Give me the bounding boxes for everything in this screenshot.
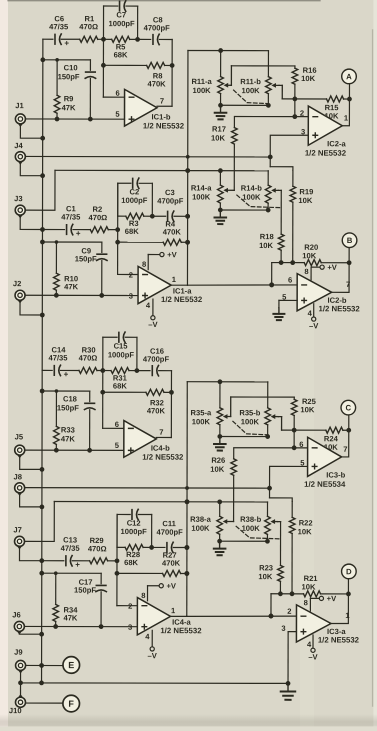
op-amp IC3-b (299, 437, 347, 489)
svg-text:1/2 NE5532: 1/2 NE5532 (143, 121, 185, 130)
resistor R10 47K (54, 240, 79, 295)
svg-text:7: 7 (159, 428, 163, 437)
ground at pin5 (273, 308, 284, 320)
wiper arrow R11-b (271, 83, 282, 99)
svg-text:10K: 10K (301, 74, 315, 83)
svg-text:150pF: 150pF (75, 254, 97, 263)
svg-text:R22: R22 (299, 518, 313, 527)
svg-text:100K: 100K (192, 193, 211, 202)
svg-text:1/2 NE5532: 1/2 NE5532 (161, 295, 203, 304)
wire main input line C6/R1 section (43, 38, 53, 40)
jack J7 (13, 525, 24, 549)
svg-text:+: + (64, 39, 69, 48)
potentiometer R14-b 100K (241, 171, 271, 210)
capacitor C17 150pF box (39, 571, 106, 627)
svg-text:47/35: 47/35 (61, 213, 81, 222)
capacitor C7 1000pF feedback box (103, 1, 137, 40)
svg-text:6: 6 (288, 276, 292, 285)
svg-text:1000pF: 1000pF (108, 350, 135, 359)
resistor R34 47K (53, 571, 78, 626)
dashed gang line (234, 90, 269, 104)
wire pot feed rail section3-4 (184, 382, 189, 617)
wire wiper line to R25 (231, 396, 294, 398)
potentiometer R35-b 100K (239, 382, 270, 437)
capacitor C2 1000pF box (118, 178, 153, 216)
svg-text:68K: 68K (124, 558, 138, 567)
svg-text:100K: 100K (191, 524, 210, 533)
svg-text:10K: 10K (258, 572, 272, 581)
wire pin3 to R22 (267, 466, 307, 501)
wire ground line from J4 (26, 155, 270, 158)
svg-text:10K: 10K (300, 405, 314, 414)
svg-text:47/35: 47/35 (49, 22, 69, 31)
potentiometer R38-b 100K (240, 502, 270, 541)
capacitor C8 4700pF (144, 15, 171, 44)
svg-text:+: + (76, 229, 81, 238)
wire J7 stub to input rail (19, 547, 41, 561)
capacitor C12 1000pF box (117, 509, 152, 547)
wire J1 stub to input rail (20, 125, 45, 141)
svg-text:R19: R19 (299, 187, 313, 196)
wire R1 to node (98, 38, 104, 40)
wire C16 to feedback rail (159, 370, 172, 372)
-V power stub 2 (309, 304, 319, 331)
jack J8 (13, 472, 24, 496)
svg-text:3: 3 (301, 127, 305, 136)
resistor R8 470K feedback (101, 62, 175, 88)
capacitor C14 47/35 electrolytic (48, 345, 68, 379)
wire pot feed line (line A) (188, 48, 269, 53)
svg-text:R14-b: R14-b (241, 184, 262, 193)
svg-text:6: 6 (115, 420, 119, 429)
resistor R1 470 ohm (79, 14, 98, 42)
wire pot bottoms 2 (217, 539, 270, 544)
svg-text:–V: –V (308, 653, 318, 662)
ground at pot bottom (215, 106, 227, 119)
svg-text:8: 8 (304, 267, 308, 276)
svg-text:470Ω: 470Ω (79, 22, 98, 31)
ground at pot bottom 2 (214, 211, 226, 224)
wire pot bottoms (218, 103, 271, 108)
output terminal A (342, 69, 357, 84)
svg-text:1000pF: 1000pF (121, 196, 148, 205)
page right edge seam (373, 0, 377, 731)
wire pin3 to R19 (268, 135, 308, 170)
ground at pot bottom (214, 437, 226, 450)
wiper arrow R38-b (270, 519, 280, 524)
capacitor C11 4700pF (152, 519, 190, 553)
+V power stub 2 (311, 263, 338, 280)
svg-text:47/35: 47/35 (61, 544, 81, 553)
ground at pot bottom 2 (214, 542, 226, 555)
junction node rail / input line (115, 227, 120, 232)
wire main input rail (all jacks to coupling caps) (42, 39, 43, 683)
jack J5 input (15, 432, 25, 458)
capacitor C13 47/35 electrolytic (42, 535, 81, 569)
-V power stub (148, 299, 158, 329)
svg-text:100K: 100K (242, 193, 261, 202)
resistor R17 10K summing (211, 116, 308, 190)
wire J5 to op-amp pin5 line (25, 448, 124, 453)
svg-text:100K: 100K (241, 417, 260, 426)
svg-text:7: 7 (160, 96, 164, 105)
svg-text:R26: R26 (211, 456, 225, 465)
wire ground line from J8 (25, 487, 269, 490)
wire J4 stub to input rail (20, 162, 45, 178)
capacitor C18 150pF box (40, 389, 95, 451)
svg-text:470K: 470K (147, 406, 166, 415)
svg-text:R23: R23 (259, 563, 273, 572)
dashed gang line (233, 421, 268, 435)
resistor R20 10K feedback (272, 243, 352, 266)
svg-text:R18: R18 (260, 232, 274, 241)
capacitor C9 150pF box (40, 240, 107, 296)
op-amp IC2-b (282, 267, 360, 318)
dashed gang line 2 (236, 526, 281, 539)
jack J1 input (15, 101, 25, 127)
svg-text:+: + (64, 370, 69, 379)
svg-text:470Ω: 470Ω (79, 353, 98, 362)
ground main (bottom bus) (281, 683, 296, 699)
svg-text:R11-a: R11-a (191, 77, 212, 86)
op-amp IC1-a (129, 260, 203, 310)
wire summing node drop to pin6 (269, 594, 274, 619)
resistor R16 10K (292, 66, 317, 99)
svg-text:47K: 47K (63, 613, 77, 622)
jack J10 (9, 694, 26, 715)
svg-text:C10: C10 (64, 63, 78, 72)
svg-text:E: E (68, 660, 74, 670)
jack J4 (14, 141, 25, 165)
wire pot feed line 2 (55, 168, 268, 173)
svg-text:–V: –V (309, 321, 319, 330)
svg-text:2: 2 (287, 607, 291, 616)
wiper arrow R35-b (271, 414, 282, 430)
junction C-box right / R3 line (150, 214, 155, 219)
svg-text:6: 6 (299, 440, 303, 449)
op-amp IC4-a (128, 591, 202, 641)
svg-text:IC2-a: IC2-a (327, 139, 346, 148)
svg-text:150pF: 150pF (58, 72, 80, 81)
wire J9 to terminal E (26, 663, 62, 668)
wire op-amp output to terminal (342, 84, 349, 126)
bottom page shadow (0, 714, 377, 731)
wire C14 to R30 (60, 369, 78, 371)
node junction at inverting rail / main line (100, 368, 105, 373)
svg-text:47K: 47K (64, 282, 78, 291)
output terminal D (342, 564, 357, 579)
svg-text:10K: 10K (259, 241, 273, 250)
resistor R5 68K (103, 36, 137, 59)
svg-text:8: 8 (304, 598, 308, 607)
resistor R22 10K (289, 501, 312, 593)
wire J2 stub to input rail (20, 301, 45, 318)
+V power stub 2 (310, 594, 337, 611)
wire R25 to pin2 node (292, 428, 297, 451)
resistor R25 10K (291, 397, 316, 430)
svg-text:J8: J8 (14, 472, 22, 481)
svg-text:1/2 NE5532: 1/2 NE5532 (318, 635, 360, 644)
junction input rail / coupling cap line (39, 558, 44, 563)
svg-text:C15: C15 (114, 342, 129, 351)
svg-text:D: D (346, 567, 352, 576)
svg-text:A: A (346, 72, 352, 81)
wiper arrow R35-a (223, 397, 231, 419)
-V power stub 4 (308, 635, 318, 662)
svg-text:C7: C7 (116, 10, 126, 19)
svg-text:470K: 470K (163, 227, 182, 236)
svg-text:1/2 NE5532: 1/2 NE5532 (160, 626, 202, 635)
svg-text:4700pF: 4700pF (143, 355, 170, 364)
junction input rail / coupling cap line (40, 227, 45, 232)
svg-text:7: 7 (343, 445, 347, 454)
svg-text:100K: 100K (192, 86, 211, 95)
svg-text:R11-b: R11-b (240, 77, 261, 86)
wiper arrow R38-a (223, 519, 234, 524)
wire pot bottoms 2 (218, 208, 271, 213)
resistor R27 470K (115, 551, 190, 577)
+V power stub (148, 581, 177, 600)
potentiometer R14-a 100K (191, 171, 223, 210)
potentiometer R38-a 100K (190, 502, 222, 541)
wire inverting-node rail (103, 39, 124, 97)
svg-text:8: 8 (142, 260, 146, 269)
svg-text:J3: J3 (14, 194, 22, 203)
wire node to C16 (137, 370, 150, 372)
capacitor C3 4700pF (152, 188, 190, 222)
resistor R26 10K summing (210, 448, 307, 522)
svg-text:J1: J1 (15, 101, 24, 110)
svg-text:470K: 470K (148, 79, 167, 88)
svg-text:R38-b: R38-b (240, 515, 261, 524)
op-amp IC1-b 1/2 NE5532 (115, 89, 184, 131)
wire pot feed rail section1-2 (185, 50, 190, 285)
resistor R21 10K feedback (271, 574, 351, 597)
wire J3 stub to input rail (20, 216, 42, 230)
svg-text:100K: 100K (241, 86, 260, 95)
jack J9 (14, 648, 25, 674)
svg-text:4700pF: 4700pF (144, 23, 171, 32)
svg-text:R35-b: R35-b (239, 408, 260, 417)
wire op-amp output to terminal (342, 415, 349, 457)
svg-text:47K: 47K (62, 103, 76, 112)
svg-text:R38-a: R38-a (190, 515, 211, 524)
svg-text:100K: 100K (242, 524, 261, 533)
output terminal C (341, 400, 356, 415)
node junction at inverting rail / main line (101, 37, 106, 42)
wire J2 to pin3 line (26, 293, 138, 298)
wire J6 stub to input rail (19, 632, 44, 637)
svg-text:470Ω: 470Ω (88, 544, 107, 553)
wire J5 stub to input rail (20, 456, 45, 472)
wire pot feed line (line A) (187, 379, 268, 384)
svg-text:J5: J5 (15, 432, 24, 441)
wire C6 to R1 (61, 38, 79, 40)
svg-text:2: 2 (300, 109, 304, 118)
svg-text:1000pF: 1000pF (121, 527, 148, 536)
dashed gang line 2 (237, 195, 282, 208)
svg-text:R14-a: R14-a (191, 184, 212, 193)
svg-text:J6: J6 (12, 610, 20, 619)
node junction main line / C-top box (134, 368, 139, 373)
wire pin3 to ground bus riser (288, 632, 296, 684)
node junction main line / C-top box (135, 37, 140, 42)
resistor R2 470 ohm (73, 205, 118, 233)
resistor R32 470K feedback (100, 389, 174, 415)
svg-text:68K: 68K (113, 382, 127, 391)
svg-text:+V: +V (327, 594, 337, 603)
wire wiper line to R16 (231, 65, 294, 67)
wire pot feed line 2 (54, 499, 267, 504)
svg-text:10K: 10K (298, 196, 312, 205)
resistor R9 47K (54, 58, 76, 119)
svg-text:10K: 10K (210, 465, 224, 474)
resistor R31 68K (103, 368, 137, 391)
potentiometer R11-a 100K (191, 51, 223, 106)
wire J6 to pin3 line (25, 624, 137, 629)
svg-text:R35-a: R35-a (191, 408, 212, 417)
svg-text:J7: J7 (13, 525, 21, 534)
capacitor C16 4700pF (143, 347, 170, 376)
svg-text:R33: R33 (61, 425, 75, 434)
svg-text:68K: 68K (114, 50, 128, 59)
svg-text:6: 6 (115, 89, 119, 98)
svg-text:J2: J2 (13, 279, 21, 288)
wire node rail to pin2 (117, 514, 138, 605)
resistor R18 10K (259, 190, 284, 262)
svg-text:J10: J10 (9, 706, 22, 715)
svg-text:R9: R9 (64, 94, 74, 103)
svg-text:4700pF: 4700pF (157, 528, 184, 537)
op-amp IC4-b 1/2 NE5532 (115, 420, 184, 462)
svg-text:100K: 100K (192, 417, 211, 426)
resistor R4 470K (115, 219, 190, 245)
svg-text:470K: 470K (162, 559, 181, 568)
wire feedback rail to output (156, 371, 171, 438)
wire op-amp output to terminal 2 (331, 579, 348, 624)
op-amp IC2-a (300, 106, 349, 158)
svg-text:10K: 10K (302, 582, 316, 591)
wire J10 to terminal F (26, 702, 62, 704)
svg-text:+V: +V (166, 581, 176, 590)
capacitor C1 47/35 electrolytic (42, 204, 81, 238)
resistor R30 470 ohm (79, 345, 98, 373)
wire op-amp output to feedback rail (171, 284, 187, 286)
wire J10 stub (20, 683, 22, 697)
svg-text:3: 3 (129, 291, 133, 300)
resistor R28 68K (117, 544, 152, 567)
resistor R29 470 ohm (72, 536, 117, 564)
wire bottom ground bus (18, 671, 290, 686)
+V power stub (148, 250, 177, 269)
jack J6 (12, 610, 24, 634)
-V power stub (148, 630, 158, 660)
svg-text:+: + (75, 560, 80, 569)
wire J7 tip riser to pot line (25, 501, 54, 541)
svg-text:J9: J9 (14, 648, 22, 657)
svg-text:3: 3 (281, 624, 285, 633)
capacitor C6 47/35 electrolytic (49, 14, 69, 48)
output terminal E (63, 657, 80, 674)
svg-text:1/2 NE5532: 1/2 NE5532 (319, 304, 361, 313)
resistor R24 10K feedback (282, 427, 352, 452)
svg-text:+V: +V (167, 250, 177, 259)
svg-text:3: 3 (128, 623, 132, 632)
svg-text:10K: 10K (211, 134, 225, 143)
wiper arrow R11-a (224, 66, 232, 88)
svg-text:R17: R17 (212, 125, 226, 134)
wire R16 to pin2 node (292, 97, 297, 120)
wire IC1-a output to IC2-b pin6 (187, 282, 297, 287)
svg-text:8: 8 (141, 591, 145, 600)
svg-text:2: 2 (128, 602, 132, 611)
op-amp IC3-a (281, 598, 359, 649)
potentiometer R35-a 100K (191, 382, 223, 437)
svg-text:IC3-b: IC3-b (326, 470, 345, 479)
wire inverting-node rail (103, 371, 124, 429)
wire summing node drop to pin6 (269, 263, 274, 288)
svg-text:150pF: 150pF (74, 586, 96, 595)
wire feedback rail to output (157, 39, 172, 106)
resistor R15 10K feedback (282, 96, 352, 121)
wire pot bottoms (217, 434, 270, 439)
wire J8 stub to input rail (20, 493, 45, 509)
wire J3 tip riser to pot line (26, 170, 55, 210)
svg-text:2: 2 (129, 270, 133, 279)
wiper arrow R14-a (223, 188, 234, 193)
wire node to C8 (138, 38, 151, 40)
resistor R19 10K (290, 170, 313, 262)
wire C8 to feedback rail (159, 38, 172, 40)
wire main input line C14/R30 section (42, 369, 52, 371)
svg-text:IC4-b: IC4-b (151, 444, 170, 453)
jack J2 (13, 279, 25, 303)
svg-text:J4: J4 (14, 141, 23, 150)
svg-text:150pF: 150pF (57, 403, 79, 412)
output terminal F (63, 695, 80, 712)
svg-text:470Ω: 470Ω (89, 213, 108, 222)
svg-text:B: B (347, 236, 353, 245)
wire node rail to pin2 (118, 183, 139, 274)
svg-text:1/2 NE5532: 1/2 NE5532 (142, 453, 184, 462)
wire op-amp output to feedback rail (170, 615, 186, 617)
wire pin5 to ground (279, 300, 297, 307)
svg-text:1/2 NE5534: 1/2 NE5534 (304, 480, 346, 489)
svg-text:1/2 NE5532: 1/2 NE5532 (305, 149, 347, 158)
svg-text:47K: 47K (61, 434, 75, 443)
resistor R33 47K (54, 389, 76, 450)
svg-text:–V: –V (148, 651, 158, 660)
wire op-amp output to terminal 2 (332, 248, 349, 293)
wire R30 to node (97, 370, 103, 372)
wire IC4-a output to IC3-a pin2 (187, 613, 297, 618)
svg-text:–V: –V (148, 320, 158, 329)
svg-text:10K: 10K (302, 251, 316, 260)
svg-text:+V: +V (327, 263, 337, 272)
wiper arrow R14-b (271, 188, 281, 193)
junction C-box right / R3 line (149, 545, 154, 550)
output terminal B (342, 233, 357, 248)
jack J3 (14, 194, 25, 218)
svg-text:1000pF: 1000pF (109, 19, 136, 28)
svg-text:47/35: 47/35 (48, 353, 68, 362)
svg-text:68K: 68K (125, 227, 139, 236)
svg-text:10K: 10K (298, 527, 312, 536)
wire J1 to op-amp pin5 line (26, 117, 125, 122)
resistor R23 10K (258, 522, 283, 594)
junction node rail / input line (115, 558, 120, 563)
svg-text:C: C (345, 403, 351, 412)
